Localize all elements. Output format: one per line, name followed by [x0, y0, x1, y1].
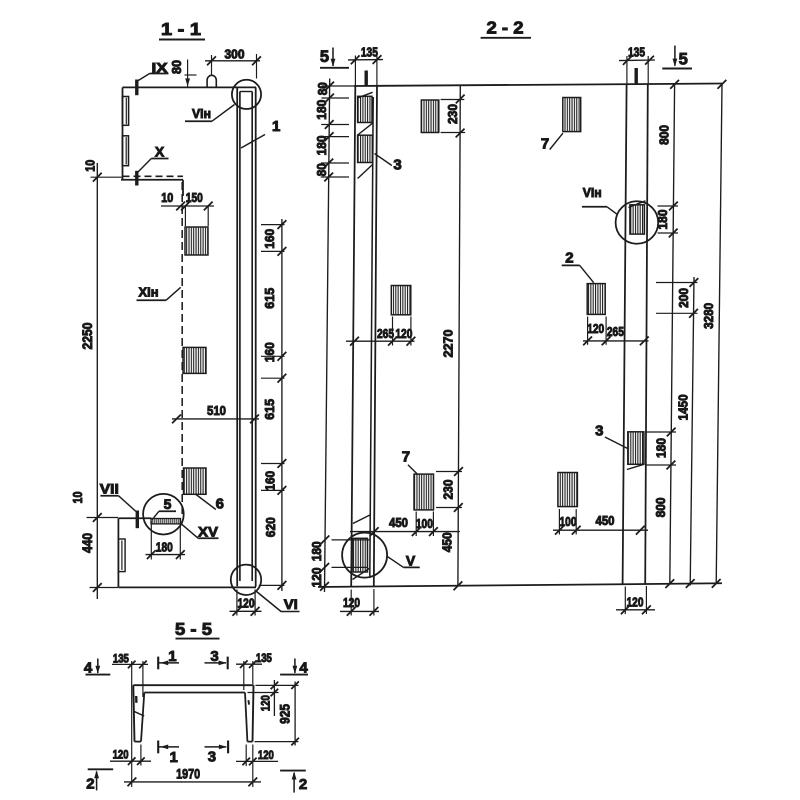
svg-text:VI: VI [284, 596, 298, 612]
svg-text:1: 1 [170, 749, 178, 766]
svg-text:160: 160 [262, 229, 277, 249]
svg-text:620: 620 [263, 517, 278, 537]
svg-text:2: 2 [565, 249, 573, 266]
svg-text:3: 3 [208, 749, 216, 766]
svg-text:VIн: VIн [192, 106, 211, 121]
svg-text:80: 80 [170, 60, 184, 74]
svg-text:180: 180 [655, 210, 670, 230]
svg-text:7: 7 [402, 448, 410, 465]
svg-text:5: 5 [320, 48, 329, 66]
svg-text:2: 2 [86, 776, 94, 793]
svg-text:230: 230 [445, 104, 460, 124]
svg-text:800: 800 [653, 497, 668, 517]
svg-text:510: 510 [207, 403, 226, 418]
svg-text:135: 135 [256, 651, 272, 665]
svg-text:120: 120 [258, 695, 272, 711]
svg-text:V: V [406, 552, 416, 568]
svg-text:180: 180 [314, 135, 329, 155]
svg-text:1 - 1: 1 - 1 [161, 19, 201, 39]
svg-text:450: 450 [596, 514, 615, 528]
svg-text:1970: 1970 [176, 765, 200, 781]
svg-text:120: 120 [258, 748, 274, 762]
svg-text:X: X [155, 143, 165, 159]
svg-text:120: 120 [395, 326, 412, 341]
svg-text:5: 5 [679, 51, 688, 69]
svg-text:135: 135 [113, 652, 129, 666]
svg-text:135: 135 [361, 45, 378, 60]
svg-text:3: 3 [393, 157, 401, 174]
svg-text:450: 450 [440, 532, 455, 552]
svg-text:120: 120 [113, 748, 129, 762]
svg-text:2 - 2: 2 - 2 [487, 18, 524, 38]
svg-text:XIн: XIн [139, 285, 159, 300]
svg-text:180: 180 [314, 100, 329, 120]
svg-text:2: 2 [299, 776, 307, 793]
svg-text:615: 615 [262, 288, 277, 309]
svg-text:450: 450 [389, 516, 408, 530]
svg-text:180: 180 [309, 541, 324, 561]
svg-text:XV: XV [198, 523, 219, 539]
svg-text:5 - 5: 5 - 5 [175, 619, 212, 639]
svg-text:3: 3 [210, 648, 218, 665]
svg-text:2270: 2270 [441, 330, 456, 358]
svg-text:265: 265 [377, 326, 394, 341]
svg-text:1: 1 [168, 648, 176, 665]
svg-text:1450: 1450 [676, 394, 691, 420]
svg-text:160: 160 [262, 342, 277, 362]
svg-text:80: 80 [315, 82, 330, 95]
svg-text:VII: VII [100, 480, 119, 496]
svg-text:3280: 3280 [701, 303, 716, 329]
svg-text:6: 6 [216, 495, 224, 512]
svg-text:80: 80 [314, 163, 329, 176]
svg-text:150: 150 [186, 191, 203, 205]
svg-text:5: 5 [164, 496, 172, 512]
svg-text:800: 800 [657, 125, 672, 145]
svg-text:10: 10 [82, 160, 97, 172]
svg-text:160: 160 [262, 471, 277, 491]
svg-text:300: 300 [225, 48, 245, 62]
svg-text:1: 1 [272, 118, 280, 135]
svg-text:VIн: VIн [583, 185, 602, 200]
svg-text:925: 925 [277, 703, 292, 723]
svg-text:3: 3 [595, 422, 603, 439]
svg-text:200: 200 [676, 288, 691, 308]
svg-text:230: 230 [441, 480, 456, 500]
svg-text:2250: 2250 [80, 323, 95, 350]
svg-text:10: 10 [70, 492, 85, 504]
svg-text:7: 7 [541, 135, 549, 152]
svg-text:440: 440 [80, 533, 95, 553]
svg-text:10: 10 [161, 191, 173, 205]
svg-text:615: 615 [262, 399, 277, 420]
svg-text:180: 180 [654, 438, 669, 458]
svg-text:180: 180 [156, 539, 173, 554]
svg-text:120: 120 [309, 567, 324, 587]
svg-text:120: 120 [587, 321, 604, 336]
